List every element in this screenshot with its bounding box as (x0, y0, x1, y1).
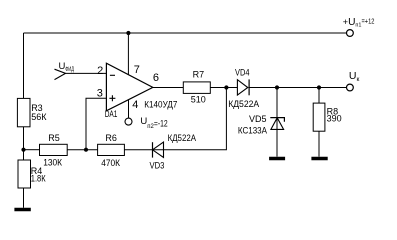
op-amp plus sign (109, 95, 115, 101)
svg-text:6: 6 (153, 72, 159, 84)
zener VD5 cathode bar with tick (270, 118, 284, 122)
node E junction R8 (317, 85, 321, 89)
wire top +12V rail (24, 32, 347, 34)
svg-text:56К: 56К (31, 112, 47, 122)
svg-text:R5: R5 (48, 133, 60, 143)
wire VD4 to output terminal (249, 87, 346, 89)
wire R8 branch vertical (318, 88, 320, 157)
wire R6 to VD3 (124, 149, 163, 151)
zener VD5 triangle (271, 118, 284, 130)
svg-text:510: 510 (191, 95, 206, 105)
svg-text:1.8К: 1.8К (31, 173, 46, 183)
svg-text:КД522А: КД522А (168, 133, 196, 143)
svg-text:3: 3 (97, 88, 103, 100)
ground under R8 (311, 157, 327, 161)
wire R5 to node B (67, 149, 97, 151)
svg-text:4: 4 (132, 99, 138, 111)
input arrow Ufid (55, 69, 66, 79)
wire pin7 vertical from rail to op-amp (127, 33, 129, 76)
svg-text:2: 2 (97, 65, 103, 77)
wire R4 to ground (23, 188, 25, 208)
node B junction R5/R6/pin3 (84, 148, 88, 152)
svg-text:DA1: DA1 (105, 109, 118, 119)
wire left vertical from rail to R3 (23, 33, 25, 98)
ground under VD5 (269, 157, 285, 161)
svg-text:R7: R7 (193, 70, 205, 80)
node C junction R7/VD4/feedback (224, 85, 228, 89)
resistor R4 (18, 160, 31, 188)
svg-text:VD5: VD5 (249, 114, 267, 124)
node A junction R3/R4/R5 (21, 148, 25, 152)
svg-text:390: 390 (327, 114, 342, 124)
svg-text:К140УД7: К140УД7 (144, 99, 177, 109)
diode VD3 triangle (153, 142, 164, 157)
ground under R4 (14, 208, 30, 212)
wire pin 4 down (128, 100, 130, 119)
wire VD5 branch vertical (276, 88, 278, 157)
wire R3 to node A (23, 127, 25, 160)
resistor R8 (313, 103, 325, 131)
diode VD3 cathode bar (152, 142, 154, 157)
node D junction VD5 (275, 85, 279, 89)
wire VD3 to feedback corner up to node C (164, 88, 227, 150)
diode VD4 cathode bar (248, 79, 250, 95)
terminal +Up1 (347, 30, 354, 37)
svg-text:КД522А: КД522А (228, 99, 259, 109)
svg-text:130К: 130К (43, 157, 62, 167)
svg-text:КС133А: КС133А (238, 126, 267, 136)
terminal Uk (347, 84, 354, 91)
wire input to pin 2 (66, 72, 107, 74)
node junction rail/pin7 (126, 31, 130, 35)
pin 4 circle (125, 118, 132, 125)
wire node B up to pin 3 (86, 98, 106, 150)
svg-text:VD3: VD3 (150, 161, 165, 171)
resistor R5 (40, 144, 68, 155)
svg-text:R6: R6 (105, 133, 117, 143)
wire node A to R5 (24, 149, 40, 151)
resistor R3 (17, 98, 30, 126)
wire output pin 6 to R7 (153, 87, 184, 89)
op-amp DA1 triangle (106, 63, 152, 111)
diode VD4 triangle (237, 80, 247, 95)
resistor R7 (183, 82, 210, 94)
svg-text:7: 7 (134, 64, 140, 76)
svg-text:VD4: VD4 (235, 68, 250, 78)
wire R7 to VD4 (210, 87, 237, 89)
svg-text:470К: 470К (101, 158, 120, 168)
op-amp minus sign (110, 74, 115, 76)
resistor R6 (98, 144, 125, 155)
